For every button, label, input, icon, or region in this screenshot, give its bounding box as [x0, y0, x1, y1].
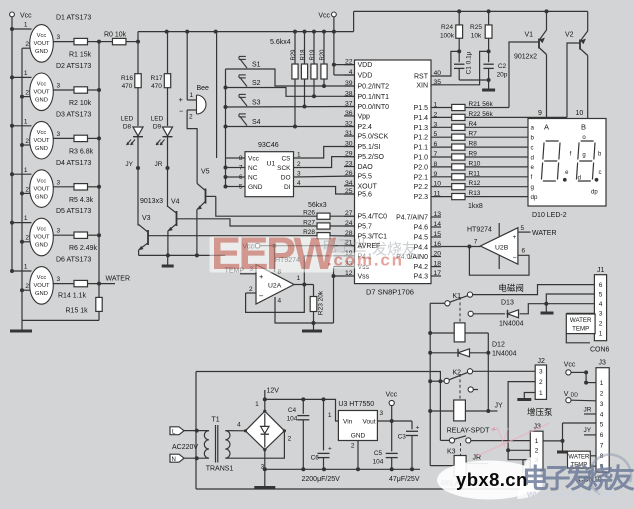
svg-text:V: V: [564, 391, 569, 398]
svg-text:R0 10k: R0 10k: [104, 32, 127, 39]
svg-text:R26: R26: [303, 210, 315, 217]
svg-text:2: 2: [599, 321, 603, 328]
svg-text:P0.0/INT0: P0.0/INT0: [358, 104, 390, 111]
svg-text:Vcc: Vcc: [564, 362, 576, 369]
svg-text:5.6kx4: 5.6kx4: [270, 39, 291, 46]
svg-text:P4.3: P4.3: [414, 274, 429, 281]
svg-text:RELAY-SPDT: RELAY-SPDT: [447, 428, 491, 435]
svg-text:NC: NC: [248, 165, 258, 172]
svg-text:47μF/25V: 47μF/25V: [389, 476, 420, 483]
svg-text:D2 ATS173: D2 ATS173: [56, 63, 91, 70]
svg-text:D13: D13: [501, 300, 514, 307]
svg-text:电子世: 电子世: [322, 238, 367, 255]
svg-text:Vss: Vss: [358, 274, 370, 281]
svg-text:2: 2: [25, 90, 29, 97]
svg-text:TRANS1: TRANS1: [206, 466, 234, 473]
svg-text:R7: R7: [469, 131, 478, 138]
svg-text:1: 1: [190, 92, 194, 99]
svg-text:C1 0.1μ: C1 0.1μ: [466, 51, 473, 74]
svg-text:GND: GND: [35, 146, 48, 152]
svg-text:R4: R4: [469, 121, 478, 128]
svg-text:S1: S1: [252, 62, 261, 69]
svg-text:P2.1: P2.1: [414, 174, 429, 181]
svg-text:6: 6: [599, 282, 603, 289]
svg-text:R1 15k: R1 15k: [69, 52, 92, 59]
svg-text:DI: DI: [284, 184, 291, 191]
svg-text:LED: LED: [121, 116, 134, 123]
svg-text:D4 ATS173: D4 ATS173: [56, 160, 91, 167]
svg-text:S2: S2: [252, 80, 261, 87]
svg-text:R12: R12: [469, 180, 481, 187]
svg-text:R8: R8: [469, 141, 478, 148]
svg-text:Vcc: Vcc: [37, 130, 47, 136]
svg-text:3: 3: [57, 228, 61, 235]
svg-text:DD: DD: [571, 393, 579, 399]
svg-text:R18: R18: [300, 49, 306, 61]
svg-text:DAO: DAO: [358, 164, 374, 171]
svg-text:R5 4.3k: R5 4.3k: [69, 197, 94, 204]
svg-text:NC: NC: [248, 175, 258, 182]
svg-text:−: −: [179, 107, 184, 116]
svg-text:4: 4: [278, 298, 282, 305]
svg-text:U2B: U2B: [495, 245, 509, 252]
svg-text:7: 7: [474, 239, 478, 246]
svg-text:104: 104: [287, 416, 298, 423]
svg-text:104: 104: [373, 459, 384, 466]
svg-text:Vcc: Vcc: [37, 82, 47, 88]
svg-text:1N4004: 1N4004: [492, 351, 517, 358]
svg-text:GND: GND: [35, 49, 48, 55]
svg-text:D9: D9: [153, 124, 162, 131]
svg-text:d: d: [531, 154, 535, 161]
svg-text:P5.4/TC0: P5.4/TC0: [358, 214, 388, 221]
svg-text:T1: T1: [212, 417, 220, 424]
svg-text:WATER: WATER: [568, 454, 590, 460]
svg-text:JY: JY: [125, 161, 133, 168]
svg-text:3: 3: [600, 401, 604, 408]
svg-text:2200μF/25V: 2200μF/25V: [302, 476, 341, 483]
svg-text:P0.1/INT1: P0.1/INT1: [358, 94, 390, 101]
svg-text:3: 3: [57, 83, 61, 90]
svg-text:J3: J3: [599, 360, 607, 367]
svg-text:VOUT: VOUT: [33, 283, 50, 289]
svg-text:SCK: SCK: [277, 165, 291, 172]
svg-text:5: 5: [599, 291, 603, 298]
svg-text:C2: C2: [498, 63, 507, 70]
svg-text:R23 20k: R23 20k: [318, 290, 325, 315]
svg-text:B: B: [581, 123, 586, 132]
svg-text:Vcc: Vcc: [37, 275, 47, 281]
svg-text:XIN: XIN: [416, 82, 428, 89]
svg-text:GND: GND: [35, 243, 48, 249]
svg-text:S3: S3: [252, 100, 261, 107]
svg-text:JR: JR: [473, 455, 482, 462]
svg-text:WATER: WATER: [106, 276, 131, 283]
svg-text:a: a: [531, 125, 535, 132]
svg-text:5: 5: [521, 225, 525, 232]
svg-text:发烧友: 发烧友: [372, 241, 417, 258]
svg-text:P1.2: P1.2: [414, 135, 429, 142]
svg-text:5: 5: [600, 422, 604, 429]
svg-text:JY: JY: [495, 403, 504, 410]
svg-text:P4.7/AIN7: P4.7/AIN7: [396, 215, 428, 222]
svg-text:P2.2: P2.2: [414, 184, 429, 191]
svg-text:Vout: Vout: [362, 418, 375, 425]
svg-text:Vcc: Vcc: [20, 13, 32, 20]
svg-text:Vcc: Vcc: [37, 227, 47, 233]
svg-text:Vcc: Vcc: [37, 178, 47, 184]
svg-text:P4.2: P4.2: [414, 264, 429, 271]
svg-text:4: 4: [237, 422, 241, 429]
svg-text:VOUT: VOUT: [33, 235, 50, 241]
svg-text:GND: GND: [35, 291, 48, 297]
svg-text:4: 4: [599, 301, 603, 308]
svg-text:9013x3: 9013x3: [140, 198, 163, 205]
svg-text:dp: dp: [591, 190, 598, 196]
svg-text:2: 2: [25, 138, 29, 145]
svg-text:9: 9: [538, 110, 542, 117]
svg-text:100k: 100k: [440, 33, 455, 40]
svg-text:P5.0/SCK: P5.0/SCK: [358, 134, 389, 141]
svg-text:www.elecfans.com: www.elecfans.com: [526, 490, 616, 501]
svg-text:GND: GND: [351, 432, 366, 439]
svg-text:g: g: [531, 184, 535, 191]
svg-text:1: 1: [600, 380, 604, 387]
svg-text:10: 10: [576, 110, 584, 117]
svg-text:3: 3: [599, 311, 603, 318]
svg-text:Vcc: Vcc: [386, 392, 398, 399]
svg-text:1: 1: [24, 70, 28, 77]
svg-text:3: 3: [57, 276, 61, 283]
svg-text:J1: J1: [597, 267, 605, 274]
svg-text:1: 1: [24, 215, 28, 222]
svg-text:V4: V4: [171, 199, 180, 206]
svg-text:C5: C5: [374, 450, 383, 457]
svg-text:U3 HT7550: U3 HT7550: [338, 401, 374, 408]
svg-text:RST: RST: [414, 74, 429, 81]
svg-text:U2A: U2A: [268, 283, 282, 290]
svg-text:P0.2/INT2: P0.2/INT2: [358, 84, 390, 91]
svg-text:D6 ATS173: D6 ATS173: [56, 257, 91, 264]
svg-text:2: 2: [249, 286, 253, 293]
svg-text:A: A: [544, 123, 549, 132]
svg-text:P1.3: P1.3: [414, 125, 429, 132]
svg-text:12V: 12V: [267, 388, 280, 395]
svg-text:VOUT: VOUT: [33, 41, 50, 47]
svg-text:D3 ATS173: D3 ATS173: [56, 111, 91, 118]
svg-text:+: +: [513, 234, 517, 241]
svg-text:4: 4: [600, 411, 604, 418]
svg-text:AC220V: AC220V: [172, 444, 198, 451]
svg-text:−: −: [513, 255, 517, 262]
svg-text:R13: R13: [469, 190, 481, 197]
svg-text:JR: JR: [584, 407, 592, 414]
svg-text:R17: R17: [151, 75, 163, 82]
svg-text:R19: R19: [310, 49, 316, 61]
svg-text:470: 470: [122, 83, 133, 90]
svg-text:6: 6: [600, 432, 604, 439]
svg-text:2: 2: [189, 114, 193, 121]
svg-text:VOUT: VOUT: [33, 90, 50, 96]
svg-text:R29: R29: [291, 49, 297, 61]
svg-text:HT9274: HT9274: [467, 227, 492, 234]
svg-text:VOUT: VOUT: [33, 138, 50, 144]
svg-text:GND: GND: [35, 194, 48, 200]
svg-text:R2 10k: R2 10k: [69, 100, 92, 107]
svg-text:P5.1/SI: P5.1/SI: [358, 144, 381, 151]
svg-text:1kx8: 1kx8: [468, 203, 483, 210]
svg-text:R11: R11: [469, 170, 481, 177]
svg-text:D10 LED-2: D10 LED-2: [532, 212, 567, 219]
svg-text:U1: U1: [267, 161, 276, 168]
svg-text:VDD: VDD: [358, 73, 373, 80]
svg-text:2: 2: [600, 390, 604, 397]
svg-text:R16: R16: [121, 75, 133, 82]
svg-text:S4: S4: [252, 119, 261, 126]
svg-text:Vin: Vin: [343, 418, 353, 425]
svg-text:D5 ATS173: D5 ATS173: [56, 208, 91, 215]
svg-text:b: b: [531, 135, 535, 142]
svg-text:V3: V3: [142, 215, 151, 222]
svg-text:P5.6: P5.6: [358, 192, 373, 199]
svg-text:CS: CS: [281, 156, 291, 163]
svg-text:P2.3: P2.3: [414, 194, 429, 201]
svg-text:C4: C4: [288, 407, 297, 414]
svg-text:WATER: WATER: [532, 230, 557, 237]
svg-text:R22 56k: R22 56k: [469, 111, 494, 118]
svg-text:D8: D8: [123, 124, 132, 131]
svg-text:增压泵: 增压泵: [527, 407, 553, 417]
svg-text:+: +: [328, 446, 332, 453]
svg-text:P1.1: P1.1: [414, 145, 429, 152]
svg-text:2: 2: [25, 186, 29, 193]
svg-text:e: e: [531, 164, 535, 171]
svg-text:10k: 10k: [471, 33, 482, 40]
svg-text:93C46: 93C46: [258, 142, 279, 149]
svg-text:D7 SN8P1706: D7 SN8P1706: [366, 288, 414, 297]
svg-text:J2: J2: [538, 358, 546, 365]
svg-text:P5.2/SO: P5.2/SO: [358, 154, 385, 161]
svg-text:+: +: [179, 95, 184, 104]
svg-text:1: 1: [24, 22, 28, 29]
svg-text:V5: V5: [201, 169, 210, 176]
svg-text:1: 1: [24, 264, 28, 271]
svg-text:1: 1: [24, 167, 28, 174]
svg-text:N: N: [172, 457, 176, 463]
svg-text:R9: R9: [469, 151, 478, 158]
svg-text:3: 3: [380, 410, 384, 417]
svg-text:3: 3: [57, 34, 61, 41]
svg-text:P5.7: P5.7: [358, 224, 373, 231]
svg-text:R20: R20: [320, 49, 326, 61]
svg-text:R25: R25: [470, 24, 482, 31]
svg-text:1: 1: [255, 401, 259, 408]
svg-text:JY: JY: [584, 427, 592, 434]
svg-text:电磁阀: 电磁阀: [498, 283, 524, 293]
svg-text:ybx8.cn: ybx8.cn: [456, 469, 528, 490]
svg-text:6: 6: [522, 248, 526, 255]
svg-text:1: 1: [24, 118, 28, 125]
svg-text:2: 2: [25, 41, 29, 48]
svg-text:D12: D12: [492, 342, 505, 349]
svg-text:Bee: Bee: [197, 85, 210, 92]
svg-text:1N4004: 1N4004: [499, 321, 524, 328]
svg-text:WATER: WATER: [570, 317, 592, 324]
svg-text:g: g: [582, 153, 585, 159]
svg-text:P1.5: P1.5: [414, 105, 429, 112]
svg-text:20p: 20p: [497, 72, 508, 79]
svg-text:3: 3: [57, 131, 61, 138]
svg-text:Vcc: Vcc: [318, 13, 330, 20]
svg-text:f: f: [531, 174, 533, 181]
svg-text:XOUT: XOUT: [358, 183, 378, 190]
svg-text:VOUT: VOUT: [33, 186, 50, 192]
svg-text:P2.4: P2.4: [358, 124, 373, 131]
svg-text:V1: V1: [525, 32, 534, 39]
svg-text:Vpp: Vpp: [358, 113, 371, 120]
svg-text:Vcc: Vcc: [37, 33, 47, 39]
svg-text:R6 2.49k: R6 2.49k: [69, 245, 98, 252]
svg-text:3: 3: [539, 369, 543, 376]
svg-text:EEPW: EEPW: [211, 228, 337, 279]
svg-text:Vcc: Vcc: [248, 156, 260, 163]
svg-text:GND: GND: [248, 184, 263, 191]
svg-text:CON6: CON6: [590, 347, 610, 354]
svg-text:9012x2: 9012x2: [514, 54, 537, 61]
svg-text:56kx3: 56kx3: [308, 202, 327, 209]
svg-text:≁: ≁: [490, 424, 498, 434]
svg-text:2: 2: [351, 443, 355, 450]
svg-text:P4.6: P4.6: [414, 225, 429, 232]
svg-text:GND: GND: [35, 98, 48, 104]
svg-text:C6: C6: [311, 455, 320, 462]
svg-text:1: 1: [535, 438, 539, 445]
svg-text:2: 2: [535, 448, 539, 455]
svg-text:dp: dp: [531, 194, 538, 201]
svg-text:P2.0: P2.0: [414, 164, 429, 171]
svg-text:2: 2: [25, 235, 29, 242]
svg-text:c: c: [531, 144, 534, 151]
svg-text:R27: R27: [303, 220, 315, 227]
svg-text:R24: R24: [441, 24, 453, 31]
svg-text:2: 2: [288, 436, 292, 443]
svg-text:c: c: [599, 170, 602, 176]
svg-text:1: 1: [328, 412, 332, 419]
svg-text:3: 3: [57, 179, 61, 186]
svg-text:1: 1: [539, 390, 543, 397]
svg-text:R21 56k: R21 56k: [469, 101, 494, 108]
svg-text:TEMP: TEMP: [572, 326, 589, 333]
svg-text:R15 1k: R15 1k: [66, 308, 89, 315]
svg-text:2: 2: [25, 283, 29, 290]
svg-text:−: −: [259, 292, 264, 301]
svg-text:R10: R10: [469, 160, 481, 167]
svg-text:V2: V2: [565, 32, 574, 39]
svg-text:K3: K3: [447, 449, 456, 456]
svg-text:P1.0: P1.0: [414, 155, 429, 162]
svg-text:R14 1.1k: R14 1.1k: [58, 293, 87, 300]
svg-text:LED: LED: [151, 116, 164, 123]
svg-text:R3 6.8k: R3 6.8k: [69, 148, 94, 155]
svg-text:JR: JR: [155, 161, 163, 168]
svg-text:+: +: [416, 425, 420, 432]
svg-text:C3: C3: [398, 434, 407, 441]
svg-text:P5.5: P5.5: [358, 174, 373, 181]
svg-text:D1 ATS173: D1 ATS173: [56, 15, 91, 22]
svg-text:DO: DO: [281, 175, 291, 182]
svg-text:P1.4: P1.4: [414, 115, 429, 122]
svg-text:2: 2: [539, 379, 543, 386]
svg-text:470: 470: [151, 83, 162, 90]
svg-text:1: 1: [599, 331, 603, 338]
svg-text:d: d: [578, 176, 581, 182]
svg-text:7: 7: [600, 443, 604, 450]
svg-text:VDD: VDD: [358, 62, 373, 69]
